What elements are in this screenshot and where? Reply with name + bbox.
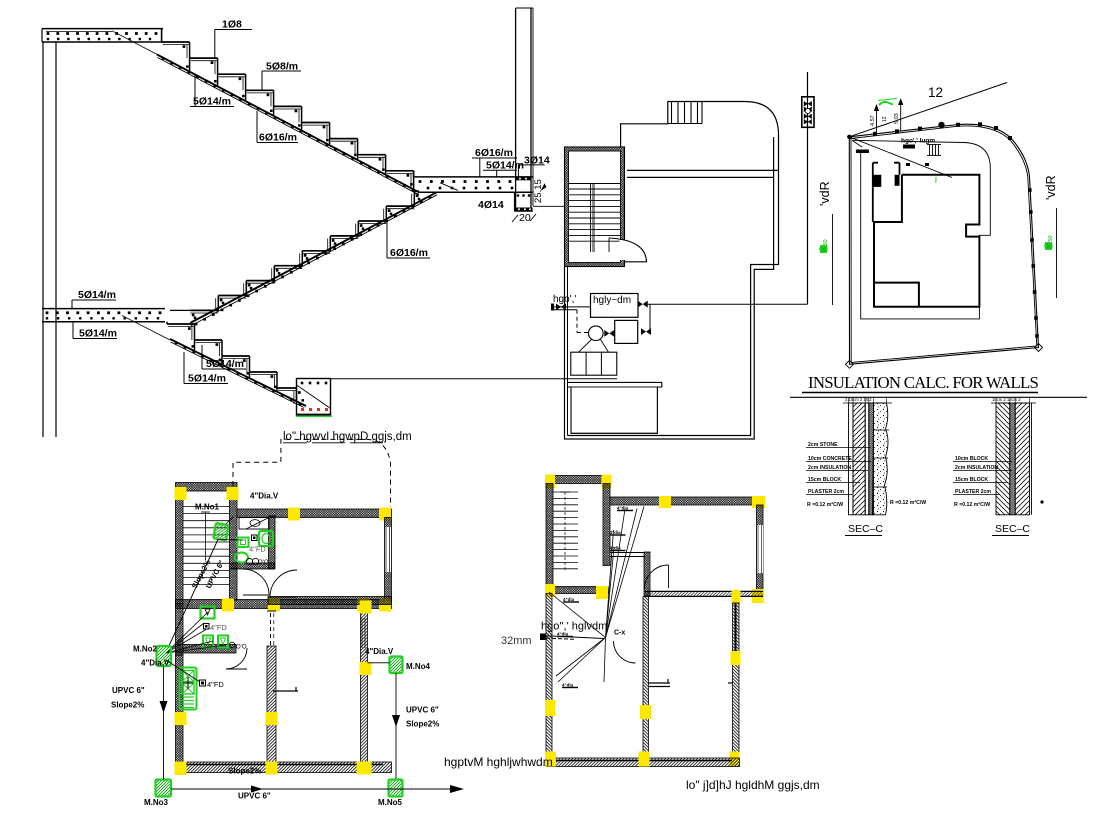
svg-text:R =0.12 m²C/W: R =0.12 m²C/W xyxy=(954,502,990,508)
wall section right top labels xyxy=(991,402,1036,404)
stair section: top slab xyxy=(42,28,163,30)
column footing xyxy=(514,192,516,211)
svg-text:'vdR: 'vdR xyxy=(1044,175,1058,200)
plumbing: supply pipe left xyxy=(553,306,591,308)
stair shaft walls xyxy=(565,147,625,267)
svg-text:hgo',' lugm: hgo',' lugm xyxy=(901,138,935,145)
bl M.No1 manhole xyxy=(213,523,228,541)
bm wall y591 horizontal xyxy=(645,590,763,592)
svg-text:20: 20 xyxy=(519,212,531,224)
svg-text:4"dia: 4"dia xyxy=(617,506,629,511)
svg-text:lo" j]d]hJ hgldhM ggjs,dm: lo" j]d]hJ hgldhM ggjs,dm xyxy=(686,778,820,792)
svg-text:O'O: O'O xyxy=(236,645,247,651)
bm stair shaft top wall xyxy=(546,476,610,484)
bl M.No3 xyxy=(156,780,172,797)
bl M.No2 manhole xyxy=(157,646,172,666)
bm bottom wall xyxy=(546,758,740,767)
svg-text:M.No3: M.No3 xyxy=(144,798,169,807)
bm doors xyxy=(645,565,669,589)
building room A xyxy=(873,163,900,222)
site diagonal xyxy=(849,137,952,178)
svg-text:10cm 2 15cm 2: 10cm 2 15cm 2 xyxy=(992,397,1021,402)
plumbing: bowtie circle-box2 xyxy=(604,330,614,337)
wall section left top labels xyxy=(843,402,892,404)
bm stair bottom wall xyxy=(546,587,608,594)
bm stair left wall xyxy=(546,484,553,594)
svg-text:4"dia: 4"dia xyxy=(563,597,575,602)
bm stair treads xyxy=(553,491,578,493)
roof divider walls xyxy=(627,169,779,171)
svg-text:4"Dia.V: 4"Dia.V xyxy=(250,492,279,501)
stair shaft curved landing xyxy=(620,240,626,260)
svg-text:4.57: 4.57 xyxy=(870,115,876,126)
bl left drop line xyxy=(163,666,165,780)
svg-text:5Ø14/m: 5Ø14/m xyxy=(193,96,231,108)
plumbing: box2 xyxy=(615,320,638,343)
svg-text:Slope2%: Slope2% xyxy=(228,767,261,776)
bm top wall right xyxy=(610,497,763,505)
svg-text:Slope2%: Slope2% xyxy=(406,720,439,729)
building bottom-left room xyxy=(874,283,919,307)
bl left wall lower xyxy=(176,655,184,772)
plumbing: tank xyxy=(571,352,617,375)
svg-text:j: j xyxy=(934,176,937,183)
wall section left xyxy=(849,403,854,515)
svg-text:6Ø16/m: 6Ø16/m xyxy=(259,132,297,144)
svg-text:Slope2%: Slope2% xyxy=(111,701,144,710)
svg-text:32mm: 32mm xyxy=(501,635,532,647)
bl stair shaft left wall xyxy=(176,491,184,604)
bm lower right wall xyxy=(733,603,740,766)
svg-text:UPVC 6": UPVC 6" xyxy=(406,706,439,715)
bm wall vertical at 645 xyxy=(644,552,650,596)
svg-text:INSULATION CALC. FOR WALLS: INSULATION CALC. FOR WALLS xyxy=(808,373,1038,392)
svg-text:5Ø14/m: 5Ø14/m xyxy=(206,358,244,370)
svg-text:R =0.12 m²C/W: R =0.12 m²C/W xyxy=(890,500,926,506)
svg-text:UPVC 6": UPVC 6" xyxy=(238,792,271,801)
bm wall stubs xyxy=(649,682,671,684)
bl bottom arrow line xyxy=(171,788,456,790)
svg-text:hgo',': hgo',' xyxy=(553,294,576,305)
bl mid wall xyxy=(176,600,392,609)
survey dim arrows xyxy=(876,108,878,134)
mid slab xyxy=(42,308,165,310)
svg-text:25.15: 25.15 xyxy=(533,179,544,203)
middle flight soffit band xyxy=(190,192,436,323)
svg-text:12: 12 xyxy=(928,85,943,100)
plumbing: tank legs xyxy=(579,340,592,353)
bl stair treads xyxy=(183,506,230,508)
svg-text:2 10cm 2 15 2: 2 10cm 2 15 2 xyxy=(845,397,872,402)
svg-text:1Ø8: 1Ø8 xyxy=(222,19,242,31)
svg-text:M.No2: M.No2 xyxy=(133,645,158,654)
stair footing xyxy=(297,379,331,416)
upper flight rebar line into slab xyxy=(112,31,161,57)
bl bathroom1 bottom wall xyxy=(231,563,274,569)
bm WC walls xyxy=(610,552,645,554)
bl right wall upper xyxy=(385,518,392,601)
bl yellow cols top xyxy=(175,487,187,500)
lower flight steps xyxy=(166,322,168,324)
svg-text:UPVC 6": UPVC 6" xyxy=(112,686,145,695)
bl M.No4 xyxy=(390,657,403,674)
bl kitchen FD xyxy=(187,677,189,689)
bl right wall lower xyxy=(361,608,368,772)
svg-text:5.03: 5.03 xyxy=(894,113,900,124)
inner roof outline xyxy=(852,140,990,319)
bl bathroom1 right wall xyxy=(269,516,276,569)
site boundary ticks xyxy=(873,132,877,136)
bl mid wall right part xyxy=(268,597,392,605)
riser symbol xyxy=(802,97,814,128)
bm lower left wall xyxy=(546,594,552,767)
green survey mark xyxy=(879,102,893,105)
svg-text:4"dia: 4"dia xyxy=(610,530,622,535)
bm stair right wall xyxy=(603,484,610,566)
svg-text:4"FD: 4"FD xyxy=(249,545,266,554)
stair shaft landing line xyxy=(569,183,621,185)
svg-text:hgo'',' hglvdm: hgo'',' hglvdm xyxy=(541,621,607,633)
bl WC2 fixtures xyxy=(201,607,215,619)
bl doors xyxy=(243,569,269,595)
landing left taper xyxy=(440,183,458,191)
bl bottom wall xyxy=(176,762,392,773)
plumbing: pump circle xyxy=(589,326,604,341)
bl bathroom1 fixtures xyxy=(239,518,269,530)
upper flight soffit band xyxy=(157,55,419,193)
svg-text:6Ø16/m: 6Ø16/m xyxy=(475,147,513,159)
bl interior wall vertical xyxy=(267,646,276,772)
bl main top wall xyxy=(237,509,392,518)
svg-text:lo" hgwvI hgwpD ggjs,dm: lo" hgwvI hgwpD ggjs,dm xyxy=(283,431,412,443)
bm interior wall 643 xyxy=(643,597,649,767)
stair section: left wall xyxy=(42,42,44,437)
corner ticks xyxy=(856,150,869,154)
wall section right xyxy=(996,403,1010,515)
svg-text:5Ø14/m: 5Ø14/m xyxy=(79,328,117,340)
plumbing: dashed link xyxy=(576,310,578,333)
svg-text:O'O: O'O xyxy=(258,560,269,566)
plumbing: bowtie into box2 xyxy=(641,328,651,335)
building plan thick xyxy=(874,175,979,307)
svg-text:R =0.12 m²C/W: R =0.12 m²C/W xyxy=(807,502,843,508)
svg-text:12: 12 xyxy=(882,116,888,122)
svg-text:4"Dia.V: 4"Dia.V xyxy=(365,647,394,656)
roof bottom-left room xyxy=(568,382,662,433)
column at landing xyxy=(515,8,517,211)
plumbing: box hgly~dm xyxy=(591,294,639,318)
bl M.No4 drop line xyxy=(395,673,397,780)
middle flight steps xyxy=(190,309,218,311)
svg-text:6Ø16/m: 6Ø16/m xyxy=(390,247,428,259)
site boundary xyxy=(849,124,1038,364)
svg-text:5Ø14/m: 5Ø14/m xyxy=(188,373,226,385)
landing slab xyxy=(414,176,533,178)
stair section: upper flight steps xyxy=(161,29,163,42)
svg-text:hgptvM hghljwhwdm: hgptvM hghljwhwdm xyxy=(444,755,553,769)
svg-text:M.No4: M.No4 xyxy=(406,662,431,671)
svg-text:M.No5: M.No5 xyxy=(378,798,403,807)
riser line xyxy=(807,72,809,304)
lower flight soffit band xyxy=(170,339,306,406)
bm right wall upper xyxy=(757,505,764,597)
bl kitchen sink xyxy=(180,668,197,710)
svg-text:4"FD: 4"FD xyxy=(210,623,227,632)
bm supply pipe from left xyxy=(540,636,604,639)
line 12 xyxy=(849,83,1007,137)
svg-text:M.No1: M.No1 xyxy=(195,503,220,512)
lower flight rebar into slab xyxy=(122,316,170,341)
site corner diamonds xyxy=(846,360,854,368)
bl M.No5 xyxy=(389,780,403,797)
roof ladder xyxy=(668,123,702,125)
bm supply fan xyxy=(606,507,645,638)
building inner marks xyxy=(906,163,910,166)
svg-text:SEC–C: SEC–C xyxy=(995,523,1030,535)
roof outline xyxy=(568,102,779,436)
svg-text:SEC–C: SEC–C xyxy=(848,523,883,535)
bl wall stub xyxy=(273,690,298,692)
connector line footing to roof plan xyxy=(331,378,618,380)
svg-text:'vdR: 'vdR xyxy=(818,181,832,206)
stair shaft stringers xyxy=(590,184,592,253)
svg-text:4"dia: 4"dia xyxy=(610,546,622,551)
bl plan dashed roof edge xyxy=(233,439,391,507)
plumbing: line to riser xyxy=(646,303,808,305)
svg-text:5Ø14/m: 5Ø14/m xyxy=(78,289,116,301)
svg-text:4Ø14: 4Ø14 xyxy=(478,199,504,211)
bl stair shaft top wall xyxy=(176,483,238,492)
bl fan lines M.No2 xyxy=(166,630,206,654)
svg-text:4"dia: 4"dia xyxy=(562,683,574,688)
svg-text:4"Dia.V: 4"Dia.V xyxy=(141,659,170,668)
bl stair shaft right wall xyxy=(230,491,238,600)
svg-text:hgly~dm: hgly~dm xyxy=(593,295,631,306)
svg-text:C-x: C-x xyxy=(614,630,625,637)
svg-text:4"FD: 4"FD xyxy=(207,680,224,689)
bl M.No1 leader xyxy=(226,517,233,524)
bl WC2 left wall xyxy=(176,604,184,655)
bl pipe diagonal xyxy=(168,540,218,649)
stair shaft treads xyxy=(569,188,621,190)
bl WC2 bottom wall xyxy=(176,645,237,654)
plumbing: bowtie at box right xyxy=(638,301,648,308)
inner ladder xyxy=(927,144,941,146)
